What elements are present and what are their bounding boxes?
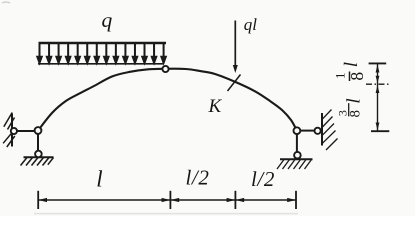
svg-text:8: 8	[347, 72, 367, 81]
svg-text:l/2: l/2	[251, 167, 275, 191]
svg-text:l/2: l/2	[186, 166, 210, 190]
svg-text:8: 8	[347, 110, 363, 118]
svg-text:l: l	[344, 98, 365, 103]
svg-text:l: l	[96, 166, 102, 191]
svg-text:q: q	[102, 8, 113, 32]
svg-text:ql: ql	[244, 15, 257, 34]
svg-text:1: 1	[333, 73, 348, 80]
svg-text:l: l	[341, 62, 362, 67]
svg-text:K: K	[208, 96, 223, 117]
